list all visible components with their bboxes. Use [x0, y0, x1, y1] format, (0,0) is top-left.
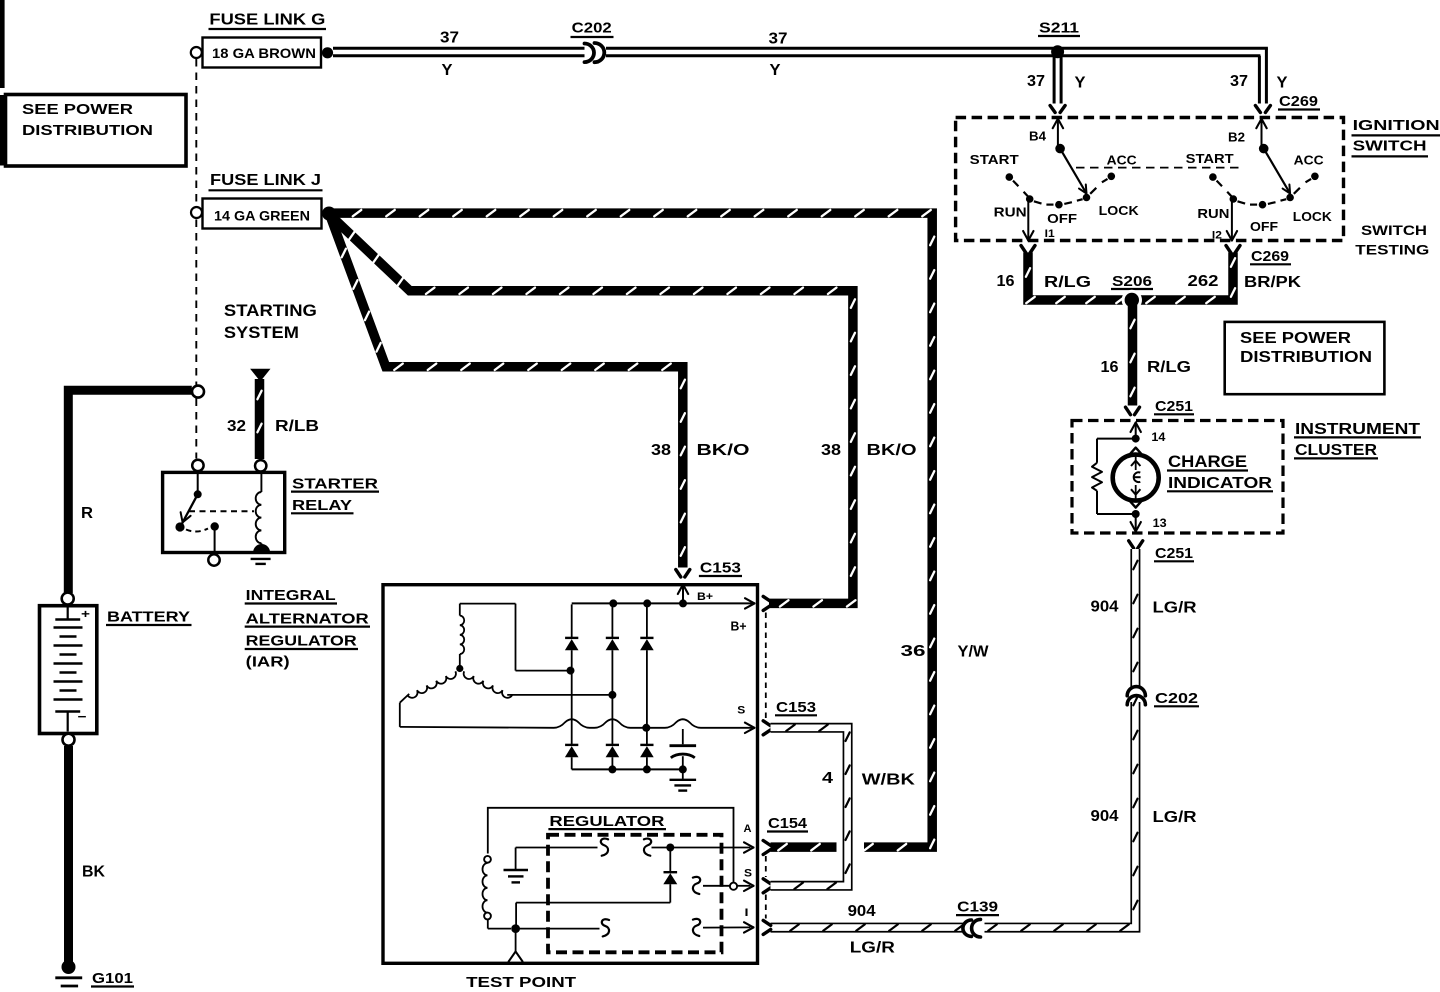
alternator B+ bus: [572, 598, 755, 608]
svg-text:C153: C153: [776, 699, 816, 716]
svg-text:18 GA BROWN: 18 GA BROWN: [212, 45, 316, 61]
svg-text:37: 37: [1027, 73, 1045, 90]
relay armature: [175, 471, 201, 531]
svg-text:13: 13: [1153, 518, 1167, 530]
connector C202 symbol (inline, vertical wire): [1127, 687, 1145, 705]
battery feed junction circle: [192, 386, 204, 398]
svg-text:I1: I1: [1045, 228, 1055, 240]
relay coil ground (dome): [251, 544, 271, 564]
wire R (battery positive cable): [68, 390, 192, 593]
svg-text:B+: B+: [697, 591, 713, 603]
connector C251 flare (bottom): [1129, 541, 1143, 549]
label TEST POINT: [466, 974, 576, 991]
svg-text:37: 37: [1230, 73, 1248, 90]
relay output contact: [211, 522, 219, 552]
svg-text:BK: BK: [82, 864, 105, 881]
svg-text:REGULATOR: REGULATOR: [246, 633, 357, 650]
label LOCK (left switch): [1099, 203, 1140, 218]
label 4: [822, 770, 833, 787]
wire BK (battery ground cable): [64, 746, 73, 962]
label 38 (left): [651, 442, 671, 459]
label REGULATOR (underlined): [548, 813, 666, 830]
label LG/R (upper): [1153, 600, 1198, 617]
svg-text:S211: S211: [1039, 20, 1079, 37]
svg-text:262: 262: [1188, 273, 1219, 290]
label Y (left): [442, 62, 453, 79]
label OFF (left switch): [1047, 211, 1077, 226]
svg-text:DISTRIBUTION: DISTRIBUTION: [1240, 349, 1372, 366]
svg-text:START: START: [970, 152, 1019, 167]
label 16 (to cluster): [1101, 359, 1119, 376]
svg-text:SYSTEM: SYSTEM: [224, 323, 299, 342]
svg-text:904: 904: [1091, 808, 1119, 825]
svg-text:S: S: [737, 704, 745, 716]
label ACC (left switch): [1107, 153, 1138, 168]
rectifier diode D6 (column 3 bottom): [640, 731, 654, 769]
label I1: [1045, 228, 1055, 240]
connector C269 flare at B2 entry: [1255, 106, 1270, 113]
svg-text:Y/W: Y/W: [958, 644, 990, 661]
wire 32 R/LB (hatched) to starter relay: [257, 379, 261, 459]
ignition switch section 2 (B2 wiper and contacts): [1209, 119, 1319, 241]
svg-text:R/LG: R/LG: [1044, 274, 1091, 291]
svg-text:(IAR): (IAR): [246, 654, 290, 671]
wire 37 Y (circuit 37, double line) from fuse link G to S211 and C269: [333, 48, 1268, 103]
battery negative terminal circle: [63, 734, 75, 746]
svg-text:INSTRUMENT: INSTRUMENT: [1295, 421, 1420, 438]
svg-text:S: S: [744, 868, 752, 880]
connector C251 label (bottom): [1154, 545, 1194, 562]
svg-text:BK/O: BK/O: [697, 442, 750, 459]
label 16 (R/LG circuit): [997, 273, 1015, 290]
label START (left switch): [970, 152, 1019, 167]
svg-text:B4: B4: [1029, 129, 1047, 144]
svg-text:TESTING: TESTING: [1355, 241, 1429, 257]
label 904 (upper): [1091, 599, 1119, 616]
fuse link J terminal circle: [191, 207, 202, 218]
svg-text:A: A: [744, 823, 752, 835]
starter relay terminal circle (32 R/LB): [255, 460, 266, 471]
ground G101 label: [91, 970, 134, 987]
node: fuse link G output junction: [322, 47, 333, 58]
node ground bus junction (capacitor): [679, 765, 687, 773]
label 904 (lower): [1091, 808, 1119, 825]
label LG/R (lower): [1153, 809, 1198, 826]
svg-text:904: 904: [848, 903, 876, 920]
node S line / diode column 3 junction: [642, 724, 650, 732]
svg-text:SWITCH: SWITCH: [1361, 222, 1427, 238]
node A line / zener junction: [666, 844, 674, 852]
regulator I line: [516, 919, 754, 937]
IAR B+ top terminal arrow: [678, 585, 688, 604]
starter relay output terminal circle: [208, 554, 219, 565]
label 32: [227, 418, 246, 435]
label INDICATOR (underlined): [1167, 475, 1273, 492]
wire 16 R/LG + 262 BR/PK bus (hatched) to splice S206: [1026, 253, 1235, 304]
svg-text:LOCK: LOCK: [1293, 209, 1333, 224]
brush slip ring (upper): [484, 856, 491, 863]
connector C251 flare (top): [1126, 407, 1140, 415]
label BK: [82, 864, 105, 881]
label IGNITION (underlined): [1352, 117, 1440, 135]
bulb internal element: [1131, 456, 1141, 500]
svg-text:37: 37: [440, 30, 459, 47]
svg-text:36: 36: [901, 643, 926, 660]
fuse link J body (14 GA GREEN): [203, 199, 322, 229]
wire 38 BK/O branch 1 (hatched): fuse J to C154-A via 36 Y/W run: [333, 210, 934, 851]
cluster pin 14 entry arrow: [1131, 423, 1141, 436]
stator winding phase B (right diagonal coil): [464, 671, 610, 697]
splice S206 junction dot: [1122, 290, 1142, 310]
relay contact dashed curve: [186, 529, 208, 532]
starter relay box: [163, 472, 285, 552]
svg-text:LG/R: LG/R: [850, 939, 896, 956]
circuit hook (A line, internal): [601, 839, 608, 856]
starter relay terminal circle (battery feed): [192, 460, 203, 471]
label B+ (terminal): [731, 619, 747, 634]
alternator internal ground symbol: [670, 770, 697, 791]
node B+ bus junction (diode 3): [643, 599, 651, 607]
label W/BK: [862, 771, 916, 788]
svg-text:START: START: [1186, 151, 1234, 166]
svg-text:IGNITION: IGNITION: [1353, 117, 1440, 134]
svg-text:I2: I2: [1212, 229, 1222, 241]
label SWITCH (underlined): [1352, 137, 1429, 156]
label 38 (right): [821, 442, 841, 459]
svg-text:Y: Y: [770, 62, 781, 79]
connector C154 label: [767, 815, 808, 832]
svg-text:16: 16: [1101, 359, 1119, 376]
label B+ (pin): [697, 591, 713, 603]
label OFF (right switch): [1250, 219, 1278, 234]
relay actuation dashed link: [189, 510, 254, 512]
fuse link G body (18 GA BROWN): [203, 38, 322, 68]
svg-text:C269: C269: [1251, 248, 1289, 265]
label 13: [1153, 518, 1167, 530]
label B4: [1029, 129, 1047, 144]
svg-text:37: 37: [769, 31, 788, 48]
bulb bottom chevron: [1128, 499, 1143, 507]
svg-text:4: 4: [822, 770, 833, 787]
label Y (mid-run): [770, 62, 781, 79]
node B+ bus junction (capacitor): [679, 599, 687, 607]
svg-text:C251: C251: [1155, 545, 1193, 562]
label 37 (mid-run): [769, 31, 788, 48]
node pin 13 junction dot: [1132, 510, 1140, 518]
node phase A / diode column 1 junction: [567, 667, 575, 675]
svg-text:B+: B+: [731, 619, 747, 634]
label 37 (at B2 drop): [1230, 73, 1248, 90]
svg-text:INDICATOR: INDICATOR: [1168, 475, 1273, 492]
label S (pin): [737, 704, 745, 716]
svg-text:STARTING: STARTING: [224, 301, 317, 320]
integral alternator regulator (IAR) box: [383, 585, 758, 964]
svg-text:OFF: OFF: [1250, 219, 1278, 234]
ignition switch section 1 (B4 wiper and contacts): [1006, 119, 1116, 241]
node: fuse link J output junction: [322, 207, 336, 221]
splice S206 label: [1111, 273, 1153, 290]
label STARTING SYSTEM: [224, 301, 317, 342]
node stator neutral junction: [456, 665, 463, 672]
label START (right switch): [1186, 151, 1234, 166]
svg-text:ACC: ACC: [1107, 153, 1138, 168]
label S (pin, regulator): [744, 868, 752, 880]
connector C269 flare at I1 output: [1021, 246, 1035, 254]
svg-text:R: R: [81, 505, 93, 522]
svg-text:Y: Y: [442, 62, 453, 79]
node I line junction dot: [511, 924, 520, 933]
svg-text:INTEGRAL: INTEGRAL: [246, 587, 336, 604]
fuse link G label: [209, 11, 327, 29]
svg-text:G101: G101: [92, 970, 133, 987]
svg-text:TEST POINT: TEST POINT: [466, 974, 576, 991]
ground G101 terminal dot: [62, 960, 76, 974]
rectifier diode D3 (column 3 top): [640, 604, 654, 724]
battery cell plates: [54, 607, 83, 732]
dashed feed line from fuse links to starter relay: [195, 59, 197, 459]
svg-text:+: +: [81, 607, 90, 621]
rotor field winding: [482, 863, 487, 913]
label R/LG: [1044, 274, 1091, 291]
label Y/W: [958, 644, 990, 661]
svg-text:38: 38: [821, 442, 841, 459]
regulator internal ground symbol: [504, 870, 529, 882]
wire 904 LG/R (outline) from IAR terminal I through C139 and C202 up to C251: [771, 549, 1143, 934]
svg-text:SEE POWER: SEE POWER: [1240, 330, 1352, 347]
svg-text:REGULATOR: REGULATOR: [549, 813, 664, 830]
bulb top chevron: [1128, 448, 1143, 456]
resistor (charge indicator shunt) left branch: [1092, 439, 1136, 514]
svg-text:C251: C251: [1155, 398, 1193, 415]
svg-text:C269: C269: [1279, 93, 1318, 110]
svg-text:R/LG: R/LG: [1147, 359, 1191, 376]
starting system feed arrow (solid triangle): [250, 369, 270, 382]
rectifier diode D1 (column 1 top): [565, 604, 579, 667]
label 36: [901, 643, 926, 660]
label B2: [1228, 129, 1245, 144]
label CLUSTER (underlined): [1294, 442, 1378, 459]
regulator dashed enclosure: [548, 835, 722, 953]
connector C153 flare (S): [763, 721, 771, 735]
svg-text:Y: Y: [1277, 75, 1288, 92]
label BK/O (left): [697, 442, 750, 459]
wire 38 BK/O branch 3 (hatched): fuse J diagonal to C153 top: [330, 216, 685, 568]
node pin 14 junction dot: [1132, 435, 1140, 443]
label 262: [1188, 273, 1219, 290]
label LOCK (right switch): [1293, 209, 1333, 224]
svg-text:LG/R: LG/R: [1153, 600, 1198, 617]
label + (battery): [81, 607, 90, 621]
svg-text:16: 16: [997, 273, 1015, 290]
label INSTRUMENT (underlined): [1294, 421, 1421, 438]
label LG/R (horizontal run): [850, 939, 896, 956]
cluster pin 13 exit arrow: [1131, 517, 1141, 532]
stator winding phase A (vertical coil): [460, 604, 568, 671]
label SWITCH TESTING: [1355, 222, 1429, 257]
label 37 (left): [440, 30, 459, 47]
mechanical linkage dashed line between switch halves: [1076, 167, 1244, 169]
label RUN (left switch): [994, 204, 1027, 219]
stator winding phase C (left diagonal coil): [400, 671, 456, 727]
fuse link J label: [209, 172, 323, 190]
node B+ bus junction (diode 2): [609, 599, 617, 607]
svg-text:FUSE LINK G: FUSE LINK G: [209, 11, 325, 28]
svg-text:B2: B2: [1228, 129, 1245, 144]
rectifier diode D2 (column 2 top): [606, 604, 620, 691]
svg-text:CHARGE: CHARGE: [1168, 452, 1247, 471]
connector C269 label (top): [1278, 93, 1320, 110]
label I (pin): [745, 907, 749, 919]
label STARTER (underlined): [291, 475, 379, 492]
svg-text:14: 14: [1151, 432, 1166, 444]
connector C153 label (top): [699, 560, 742, 577]
svg-text:W/BK: W/BK: [862, 771, 916, 788]
label CHARGE (underlined): [1167, 452, 1248, 471]
rectifier diode D4 (column 1 bottom): [565, 673, 579, 769]
svg-text:BATTERY: BATTERY: [107, 609, 190, 626]
svg-text:FUSE LINK J: FUSE LINK J: [210, 172, 321, 189]
connector C153 flare (B+): [763, 596, 771, 610]
svg-text:I: I: [745, 907, 749, 919]
connector C269 label (bottom): [1250, 248, 1291, 265]
ground G101 symbol: [55, 978, 82, 986]
circuit hook (A line, terminal side): [644, 839, 651, 856]
wire 16 R/LG (hatched) from S206 to C251: [1130, 304, 1134, 406]
zener diode Z1: [516, 849, 677, 925]
label RUN (right switch): [1197, 206, 1229, 221]
S line junction circle (frame tap): [730, 883, 737, 890]
label R/LG (to cluster): [1147, 359, 1191, 376]
svg-text:RELAY: RELAY: [292, 497, 352, 514]
label BATTERY (underlined): [106, 609, 192, 626]
connector C251 label (top): [1154, 398, 1194, 415]
see power distribution note box (right): [1225, 322, 1385, 394]
svg-text:C202: C202: [572, 20, 612, 37]
splice S211 junction dot: [1051, 45, 1064, 58]
ignition switch dashed enclosure: [956, 118, 1344, 241]
connector C202 label (inline, top): [571, 20, 614, 38]
svg-text:SWITCH: SWITCH: [1353, 137, 1427, 154]
label Y (at B2 drop): [1277, 75, 1288, 92]
field circuit frame (brush feed): [488, 808, 734, 883]
label INTEGRAL ALTERNATOR REGULATOR (IAR): [245, 587, 370, 671]
wire 38 BK/O branch 2 (hatched): fuse J diagonal to B+ (C153): [330, 215, 856, 607]
rectifier ground bus: [572, 768, 683, 770]
regulator S line: [693, 877, 754, 894]
svg-text:R/LB: R/LB: [275, 418, 319, 435]
svg-text:DISTRIBUTION: DISTRIBUTION: [22, 122, 153, 139]
fuse link G terminal circle: [191, 47, 202, 58]
label RELAY (underlined): [291, 497, 354, 514]
connector C202 label (right): [1154, 690, 1199, 707]
label − (battery): [78, 709, 87, 724]
label Y (at B4 drop): [1075, 75, 1086, 92]
svg-text:14 GA GREEN: 14 GA GREEN: [214, 208, 310, 224]
brush lead to I line: [488, 919, 511, 928]
svg-text:38: 38: [651, 442, 671, 459]
label A (pin): [744, 823, 752, 835]
charge indicator bulb circle: [1113, 455, 1159, 501]
regulator A line: [516, 842, 754, 852]
rectifier diode D5 (column 2 bottom): [606, 698, 620, 769]
node ground bus junction (column 3): [643, 765, 651, 773]
svg-text:CLUSTER: CLUSTER: [1295, 442, 1377, 459]
test point probe: [509, 930, 523, 962]
relay coil: [256, 472, 262, 547]
svg-text:Y: Y: [1075, 75, 1086, 92]
svg-text:RUN: RUN: [994, 204, 1027, 219]
svg-text:32: 32: [227, 418, 246, 435]
connector C153 flare (top feed): [676, 570, 690, 578]
connector C154 flare (I): [763, 920, 771, 934]
connector C202 symbol (inline arcs): [585, 43, 605, 62]
svg-text:OFF: OFF: [1047, 211, 1077, 226]
label 37 (at B4 drop): [1027, 73, 1045, 90]
see power distribution note box (top left): [6, 95, 187, 167]
label 14: [1151, 432, 1166, 444]
svg-text:SEE POWER: SEE POWER: [22, 101, 133, 118]
battery positive terminal circle: [62, 593, 74, 605]
svg-text:C202: C202: [1155, 690, 1198, 707]
svg-text:RUN: RUN: [1197, 206, 1229, 221]
node phase B / diode column 2 junction: [608, 691, 616, 699]
connector C269 flare at I2 output: [1226, 246, 1240, 254]
svg-text:LG/R: LG/R: [1153, 809, 1198, 826]
connector C139 label: [956, 899, 999, 916]
svg-text:C154: C154: [768, 815, 808, 832]
connector C153 to C154 dashed link: [765, 613, 767, 919]
svg-text:BR/PK: BR/PK: [1244, 274, 1302, 291]
stator S tap line with crossover hops: [400, 719, 755, 733]
capacitor C1 (noise suppression): [670, 729, 697, 769]
splice S211 label: [1038, 20, 1080, 37]
battery box: [40, 606, 97, 734]
connector C154 flare (S): [763, 879, 771, 893]
svg-text:LOCK: LOCK: [1099, 203, 1140, 218]
label 904 (horizontal run): [848, 903, 876, 920]
label I2: [1212, 229, 1222, 241]
page border bar (left edge): [0, 0, 5, 166]
wire 4 W/BK (outline) from C153-S to C154-S: [771, 725, 850, 889]
instrument cluster dashed enclosure: [1072, 421, 1283, 534]
connector C153 label (right): [775, 699, 817, 716]
connector C154 flare (A): [763, 841, 771, 855]
label ACC (right switch): [1294, 153, 1325, 168]
node ground bus junction (column 2): [608, 765, 616, 773]
svg-text:ACC: ACC: [1294, 153, 1325, 168]
svg-text:BK/O: BK/O: [867, 442, 917, 459]
label R/LB: [275, 418, 319, 435]
svg-text:ALTERNATOR: ALTERNATOR: [246, 610, 369, 627]
connector C269 flare at B4 entry: [1050, 106, 1065, 113]
svg-text:904: 904: [1091, 599, 1119, 616]
brush slip ring (lower): [484, 913, 491, 920]
svg-text:S206: S206: [1112, 273, 1152, 290]
label R: [81, 505, 93, 522]
svg-text:STARTER: STARTER: [292, 475, 378, 492]
label BK/O (right): [867, 442, 917, 459]
svg-text:C139: C139: [957, 899, 998, 916]
regulator internal ground lead: [515, 848, 517, 870]
connector C139 symbol (inline arcs): [963, 919, 981, 937]
svg-text:C153: C153: [700, 560, 741, 577]
label BR/PK: [1244, 274, 1302, 291]
